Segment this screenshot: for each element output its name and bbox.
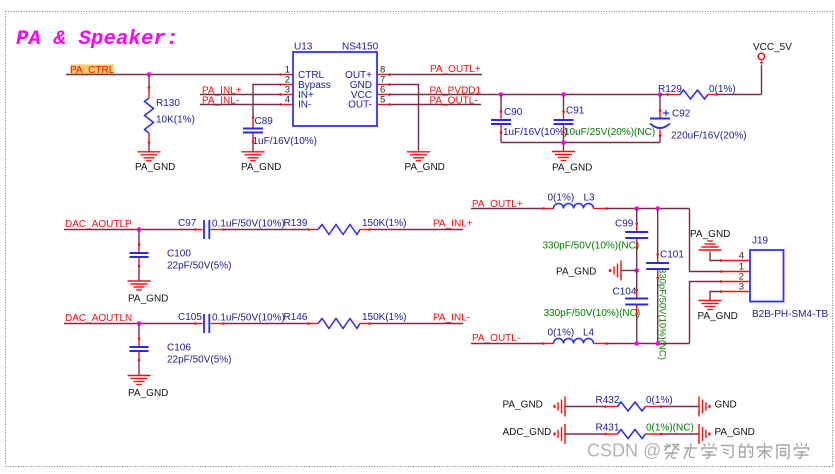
svg-text:C89: C89 xyxy=(255,116,274,127)
wire xyxy=(565,406,606,408)
wire PA_OUTL- row xyxy=(471,343,544,345)
svg-text:C101: C101 xyxy=(660,250,684,261)
resistor R146 xyxy=(284,312,407,329)
svg-text:22pF/50V(5%): 22pF/50V(5%) xyxy=(167,261,231,272)
wire PA_INL+ to pin3 xyxy=(200,94,280,96)
watermark CSDN xyxy=(587,441,809,461)
svg-text:330pF/50V(10%)(NC): 330pF/50V(10%)(NC) xyxy=(544,308,641,319)
junction node C104 bottom xyxy=(634,341,639,346)
wire xyxy=(662,433,700,435)
junction node DAC_AOUTLP xyxy=(137,227,142,232)
junction node R129/C92 xyxy=(658,92,663,97)
resistor R431 xyxy=(596,423,694,439)
svg-text:PA_GND: PA_GND xyxy=(128,294,168,305)
svg-text:3: 3 xyxy=(739,282,744,293)
wire xyxy=(370,323,463,325)
svg-text:C92: C92 xyxy=(672,109,691,120)
svg-text:1uF/16V(10%): 1uF/16V(10%) xyxy=(503,127,567,138)
net label PA_OUTL- xyxy=(430,95,478,106)
wire DAC_AOUTLN row xyxy=(64,323,195,325)
net label PA_INL- xyxy=(202,95,239,106)
wire xyxy=(662,406,700,408)
net label DAC_AOUTLP xyxy=(65,219,132,230)
svg-text:1uF/16V(10%): 1uF/16V(10%) xyxy=(253,136,317,147)
pin 3 xyxy=(280,94,293,96)
svg-text:PA_INL-: PA_INL- xyxy=(433,313,470,324)
svg-text:0(1%)(NC): 0(1%)(NC) xyxy=(646,423,694,434)
svg-text:R431: R431 xyxy=(596,423,620,434)
svg-text:PA_GND: PA_GND xyxy=(698,311,738,322)
svg-text:C99: C99 xyxy=(615,219,634,230)
wire DAC_AOUTLP row xyxy=(64,229,195,231)
power text ADC_GND xyxy=(503,427,552,438)
pin 4 xyxy=(721,260,751,262)
wire pin4 to ground xyxy=(710,252,721,261)
power text PA_GND xyxy=(503,400,543,411)
svg-text:ADC_GND: ADC_GND xyxy=(503,427,552,438)
op-amp U13 NS4150 xyxy=(279,42,391,127)
svg-text:C100: C100 xyxy=(167,249,191,260)
svg-text:4: 4 xyxy=(739,251,744,262)
junction node C90/rail xyxy=(499,92,504,97)
net label PA_CTRL xyxy=(70,65,115,76)
svg-text:0(1%): 0(1%) xyxy=(548,193,575,204)
ground sideways left PA_GND xyxy=(553,397,565,417)
svg-text:R432: R432 xyxy=(596,395,620,406)
inductor L3 xyxy=(542,193,608,210)
capacitor C91 xyxy=(554,95,656,143)
wire VCC rail xyxy=(390,94,660,96)
svg-text:C104: C104 xyxy=(613,287,637,298)
capacitor C104 xyxy=(544,271,649,344)
wire ground rail xyxy=(501,142,660,144)
net label DAC_AOUTLN xyxy=(65,313,132,324)
svg-text:C97: C97 xyxy=(178,218,197,229)
capacitor C101 xyxy=(646,209,684,360)
wire xyxy=(224,323,308,325)
capacitor C92 polarized xyxy=(650,95,747,143)
svg-text:DAC_AOUTLP: DAC_AOUTLP xyxy=(65,219,132,230)
svg-text:PA_GND: PA_GND xyxy=(405,162,445,173)
svg-text:PA_INL+: PA_INL+ xyxy=(433,219,473,230)
pin 1 xyxy=(721,271,751,273)
svg-text:PA_GND: PA_GND xyxy=(135,162,175,173)
svg-text:0(1%): 0(1%) xyxy=(548,328,575,339)
svg-text:0.1uF/50V(10%): 0.1uF/50V(10%) xyxy=(212,313,285,324)
ground PA_GND under R130 xyxy=(135,152,175,173)
svg-text:IN-: IN- xyxy=(298,100,311,111)
wire xyxy=(565,433,606,435)
ground PA_GND under C106 xyxy=(128,376,169,400)
ground PA_GND under pin7 xyxy=(405,152,445,173)
ground sideways left ADC_GND xyxy=(553,424,565,444)
svg-text:C90: C90 xyxy=(504,107,523,118)
svg-text:CSDN @: CSDN @ xyxy=(587,441,661,461)
svg-text:10uF/25V(20%)(NC): 10uF/25V(20%)(NC) xyxy=(564,127,655,138)
svg-text:U13: U13 xyxy=(294,42,313,53)
net label PA_INL+ xyxy=(202,86,242,97)
wire xyxy=(370,229,463,231)
svg-text:L3: L3 xyxy=(584,193,596,204)
connector J19 xyxy=(720,236,829,321)
pin 5 xyxy=(377,104,390,106)
svg-text:C106: C106 xyxy=(167,343,191,354)
junction node C101 bottom xyxy=(655,341,660,346)
svg-text:R146: R146 xyxy=(284,312,308,323)
pin 7 xyxy=(377,84,390,86)
svg-text:PA_GND: PA_GND xyxy=(241,162,281,173)
capacitor C99 xyxy=(543,209,649,271)
svg-text:B2B-PH-SM4-TB: B2B-PH-SM4-TB xyxy=(752,309,828,320)
svg-text:OUT-: OUT- xyxy=(348,100,372,111)
svg-text:0.1uF/50V(10%): 0.1uF/50V(10%) xyxy=(212,219,285,230)
svg-text:PA_GND: PA_GND xyxy=(715,427,755,438)
svg-text:150K(1%): 150K(1%) xyxy=(362,312,406,323)
svg-text:VCC_5V: VCC_5V xyxy=(753,42,792,53)
pin 6 xyxy=(377,94,390,96)
net label PA_INL- xyxy=(433,313,470,324)
pin 4 xyxy=(280,104,293,106)
svg-text:GND: GND xyxy=(715,400,737,411)
svg-text:330pF/50V(10%)(NC): 330pF/50V(10%)(NC) xyxy=(543,241,640,252)
svg-text:PA_OUTL-: PA_OUTL- xyxy=(472,333,520,344)
capacitor C100 xyxy=(130,230,232,282)
svg-text:0(1%): 0(1%) xyxy=(709,84,736,95)
capacitor C106 xyxy=(130,324,232,376)
power port VCC_5V xyxy=(753,42,792,64)
capacitor C89 xyxy=(243,85,317,152)
svg-text:PA_GND: PA_GND xyxy=(503,400,543,411)
svg-text:330pF/50V(10%)(NC): 330pF/50V(10%)(NC) xyxy=(657,268,668,360)
svg-text:J19: J19 xyxy=(752,236,769,247)
capacitor C105 xyxy=(178,312,285,333)
junction node C99/C104 mid xyxy=(634,268,639,273)
svg-text:PA_GND: PA_GND xyxy=(556,267,596,278)
svg-text:PA_GND: PA_GND xyxy=(552,163,592,174)
wire pin7 to ground xyxy=(390,85,419,152)
wire pin5 out xyxy=(390,104,481,106)
svg-text:PA_OUTL+: PA_OUTL+ xyxy=(430,64,481,75)
svg-text:0(1%): 0(1%) xyxy=(646,395,673,406)
ground PA_GND sideways mid xyxy=(556,261,637,281)
ground PA_GND under C89 xyxy=(241,152,281,173)
wire pin2 riser xyxy=(690,282,721,344)
svg-text:R130: R130 xyxy=(156,98,180,109)
pin 3 xyxy=(721,291,751,293)
svg-text:10K(1%): 10K(1%) xyxy=(156,115,195,126)
junction node C99 top xyxy=(634,206,639,211)
resistor R129 xyxy=(658,84,762,99)
wire L4 to J19 xyxy=(607,343,690,345)
svg-text:NS4150: NS4150 xyxy=(342,42,379,53)
pin 2 xyxy=(280,84,293,86)
ground PA_GND under C91 xyxy=(552,143,592,174)
ground PA_GND under C100 xyxy=(128,281,169,305)
resistor R130 xyxy=(145,75,195,152)
svg-text:R139: R139 xyxy=(284,218,308,229)
svg-text:220uF/16V(20%): 220uF/16V(20%) xyxy=(671,131,747,142)
net label PA_INL+ xyxy=(433,219,473,230)
junction node DAC_AOUTLN xyxy=(137,321,142,326)
pin 1 xyxy=(280,74,293,76)
ground sideways right PA_GND xyxy=(699,424,755,444)
capacitor C97 xyxy=(178,218,285,239)
wire xyxy=(224,229,308,231)
inductor L4 xyxy=(542,328,608,345)
ground sideways right GND xyxy=(699,397,737,417)
junction node PA_CTRL/R130 xyxy=(147,72,152,77)
wire pin8 out xyxy=(390,74,482,76)
junction node C91 bottom xyxy=(561,140,566,145)
wire VCC riser xyxy=(761,65,763,95)
resistor R432 xyxy=(596,395,673,411)
resistor R139 xyxy=(284,218,407,235)
wire PA_OUTL+ row xyxy=(471,208,544,210)
svg-text:R129: R129 xyxy=(658,84,682,95)
wire PA_INL- to pin4 xyxy=(200,104,280,106)
svg-text:L4: L4 xyxy=(583,328,595,339)
pin 8 xyxy=(377,74,390,76)
svg-text:5: 5 xyxy=(380,95,385,106)
ground PA_GND above pin4 xyxy=(690,229,730,250)
junction node C91 top xyxy=(561,92,566,97)
wire pin3 to ground xyxy=(710,292,721,301)
svg-text:22pF/50V(5%): 22pF/50V(5%) xyxy=(167,355,231,366)
svg-text:PA_GND: PA_GND xyxy=(690,229,730,240)
junction node C101 top xyxy=(655,206,660,211)
svg-text:PA_GND: PA_GND xyxy=(128,388,168,399)
svg-text:PA & Speaker:: PA & Speaker: xyxy=(16,28,179,51)
net label PA_PVDD1 xyxy=(430,85,482,96)
svg-text:DAC_AOUTLN: DAC_AOUTLN xyxy=(65,313,132,324)
ground PA_GND under pin3 xyxy=(698,301,738,323)
wire L3 to J19 xyxy=(607,208,690,210)
net label PA_OUTL+ (filter) xyxy=(472,199,523,210)
svg-text:4: 4 xyxy=(285,95,290,106)
svg-text:PA_OUTL-: PA_OUTL- xyxy=(430,95,478,106)
wire pin1 riser xyxy=(690,209,721,272)
svg-text:C105: C105 xyxy=(178,312,202,323)
svg-text:150K(1%): 150K(1%) xyxy=(362,218,406,229)
pin 2 xyxy=(721,281,751,283)
capacitor C90 xyxy=(491,95,567,143)
svg-text:C91: C91 xyxy=(566,106,585,117)
wire PA_CTRL to pin1 xyxy=(66,74,280,76)
net label PA_OUTL- (filter) xyxy=(472,333,520,344)
net label PA_OUTL+ xyxy=(430,64,481,75)
